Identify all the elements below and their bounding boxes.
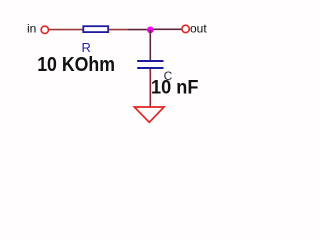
svg-text:in: in [27,22,36,36]
resistor R [83,26,108,32]
svg-text:10 nF: 10 nF [151,77,198,98]
wire node down to capacitor [149,30,151,60]
svg-text:out: out [190,22,207,36]
capacitor bottom plate [137,67,163,69]
wire in terminal to R [49,29,83,31]
svg-text:10 KOhm: 10 KOhm [37,54,115,76]
terminal out [182,25,189,32]
wire capacitor to ground [149,69,151,107]
svg-text:R: R [82,40,91,55]
wire near node dark [128,29,151,31]
wire R to node [109,29,128,31]
node junction dot [147,27,154,34]
ground [134,107,164,122]
terminal in [41,26,48,33]
wire node to out terminal [151,28,182,30]
capacitor top plate [137,60,163,62]
